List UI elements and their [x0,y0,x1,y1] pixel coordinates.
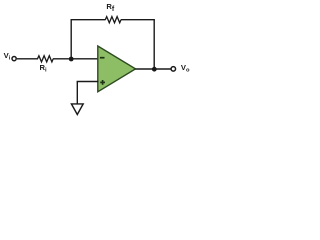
node A junction [69,57,74,62]
input terminal Vi [12,57,16,61]
ground [71,104,83,115]
wire Ri to op-amp inverting input [53,58,98,60]
wire non-inverting input [77,81,99,83]
resistor Ri [38,56,54,62]
wire ground vertical [76,82,78,105]
wire input to Ri [17,58,38,60]
wire top left to Rf [71,19,106,21]
wire feedback right vertical [153,20,155,69]
output terminal Vo [171,67,176,72]
wire feedback left vertical [70,20,72,59]
node B junction [152,67,157,72]
resistor Rf [105,17,121,23]
op-amp U1 [98,46,136,92]
wire output [135,68,170,70]
wire Rf to right corner [121,19,155,21]
